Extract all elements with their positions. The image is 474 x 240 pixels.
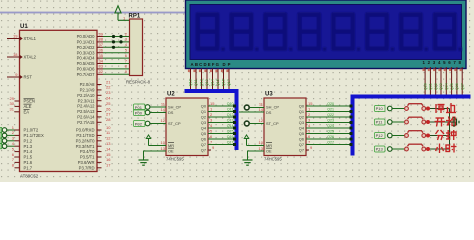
svg-text:Q11: Q11 bbox=[194, 79, 198, 86]
svg-text:P2.1/A9: P2.1/A9 bbox=[80, 88, 96, 93]
svg-text:P1.6: P1.6 bbox=[24, 160, 33, 165]
svg-text:P3.5/T1: P3.5/T1 bbox=[80, 155, 95, 160]
svg-text:22: 22 bbox=[106, 85, 111, 90]
svg-text:RST: RST bbox=[24, 75, 33, 80]
svg-text:Q0: Q0 bbox=[299, 104, 305, 109]
svg-text:Q3: Q3 bbox=[299, 120, 304, 125]
svg-text:Q26: Q26 bbox=[327, 135, 334, 139]
svg-text:P2.0/A8: P2.0/A8 bbox=[80, 82, 96, 87]
svg-text:37: 37 bbox=[99, 42, 104, 47]
svg-text:10: 10 bbox=[259, 140, 264, 145]
svg-text:ABCDEFG: ABCDEFG bbox=[191, 62, 220, 67]
svg-text:EA: EA bbox=[24, 109, 30, 114]
svg-text:P01: P01 bbox=[135, 105, 143, 110]
svg-text:27: 27 bbox=[106, 112, 111, 117]
svg-text:Q15: Q15 bbox=[227, 130, 234, 134]
svg-text:P1.5: P1.5 bbox=[24, 155, 33, 160]
svg-text:P1.7: P1.7 bbox=[24, 165, 33, 170]
svg-text:15: 15 bbox=[210, 101, 215, 106]
svg-text:19: 19 bbox=[13, 33, 18, 38]
svg-text:MR: MR bbox=[266, 143, 272, 148]
svg-text:P10: P10 bbox=[376, 106, 384, 111]
svg-text:39: 39 bbox=[99, 31, 104, 36]
svg-text:33: 33 bbox=[99, 64, 104, 69]
svg-text:Q10: Q10 bbox=[227, 102, 234, 106]
svg-text:U1: U1 bbox=[20, 24, 28, 30]
svg-text:38: 38 bbox=[99, 37, 104, 42]
svg-text:15: 15 bbox=[308, 101, 313, 106]
svg-text:Q23: Q23 bbox=[327, 119, 334, 123]
svg-text:Q4: Q4 bbox=[201, 126, 207, 131]
svg-text:12: 12 bbox=[259, 118, 264, 123]
svg-text:P3.1/TXD: P3.1/TXD bbox=[76, 133, 94, 138]
svg-text:P02: P02 bbox=[135, 121, 143, 126]
svg-text:35: 35 bbox=[99, 53, 104, 58]
svg-text:Q0: Q0 bbox=[201, 104, 207, 109]
svg-text:13: 13 bbox=[259, 146, 264, 151]
svg-text:P1.4: P1.4 bbox=[24, 149, 33, 154]
svg-text:OE: OE bbox=[168, 149, 174, 154]
svg-text:SH_CP: SH_CP bbox=[266, 105, 279, 110]
svg-text:P3.0/RXD: P3.0/RXD bbox=[76, 128, 95, 133]
svg-text:13: 13 bbox=[161, 146, 166, 151]
svg-text:15: 15 bbox=[106, 152, 111, 157]
svg-text:Q20: Q20 bbox=[423, 83, 427, 90]
svg-text:Q24: Q24 bbox=[327, 124, 334, 128]
svg-text:Q11: Q11 bbox=[227, 108, 234, 112]
svg-text:36: 36 bbox=[99, 48, 104, 53]
svg-text:32: 32 bbox=[99, 69, 104, 74]
svg-text:MR: MR bbox=[168, 143, 174, 148]
svg-text:Q1: Q1 bbox=[201, 109, 206, 114]
svg-text:P0.1/AD1: P0.1/AD1 bbox=[77, 40, 96, 45]
svg-text:Q5: Q5 bbox=[201, 131, 206, 136]
svg-text:XTAL1: XTAL1 bbox=[24, 36, 37, 41]
svg-text:Q13: Q13 bbox=[227, 119, 234, 123]
svg-text:Q7: Q7 bbox=[299, 142, 304, 147]
svg-text:28: 28 bbox=[106, 117, 111, 122]
svg-text:P3.3/INT1: P3.3/INT1 bbox=[76, 144, 96, 149]
svg-text:74HC595: 74HC595 bbox=[166, 157, 184, 162]
svg-text:P2.5/A13: P2.5/A13 bbox=[77, 109, 95, 114]
svg-text:Q2: Q2 bbox=[201, 115, 206, 120]
svg-text:ST_CP: ST_CP bbox=[266, 121, 279, 126]
svg-text:74HC595: 74HC595 bbox=[264, 157, 282, 162]
svg-text:RESPACK-8: RESPACK-8 bbox=[126, 80, 151, 85]
svg-text:RP1: RP1 bbox=[129, 14, 141, 20]
svg-text:24: 24 bbox=[106, 96, 111, 101]
svg-text:P00: P00 bbox=[135, 110, 143, 115]
svg-text:DS: DS bbox=[168, 110, 174, 115]
svg-text:P3.2/INT0: P3.2/INT0 bbox=[76, 138, 96, 143]
svg-text:Q27: Q27 bbox=[327, 141, 334, 145]
svg-text:SH_CP: SH_CP bbox=[168, 105, 181, 110]
svg-text:23: 23 bbox=[106, 90, 111, 95]
svg-text:29: 29 bbox=[10, 96, 15, 101]
svg-text:Q17: Q17 bbox=[227, 141, 234, 145]
svg-text:Q25: Q25 bbox=[327, 130, 334, 134]
svg-text:Q7: Q7 bbox=[299, 148, 304, 153]
svg-text:13: 13 bbox=[106, 141, 111, 146]
svg-text:Q10: Q10 bbox=[189, 79, 193, 86]
svg-text:Q15: Q15 bbox=[216, 79, 220, 86]
svg-text:P2.6/A14: P2.6/A14 bbox=[77, 115, 95, 120]
svg-text:P3.6/WR: P3.6/WR bbox=[78, 160, 95, 165]
svg-text:Q14: Q14 bbox=[211, 79, 215, 86]
svg-text:Q13: Q13 bbox=[205, 79, 209, 86]
svg-text:Q22: Q22 bbox=[327, 113, 334, 117]
svg-text:P0.7/AD7: P0.7/AD7 bbox=[77, 72, 96, 77]
svg-text:P2.3/A11: P2.3/A11 bbox=[78, 98, 96, 103]
svg-text:25: 25 bbox=[106, 101, 111, 106]
svg-text:P1.2: P1.2 bbox=[24, 138, 33, 143]
svg-text:12: 12 bbox=[106, 136, 111, 141]
svg-text:ALE: ALE bbox=[24, 104, 32, 109]
svg-text:10: 10 bbox=[106, 125, 111, 130]
svg-text:DS: DS bbox=[266, 110, 272, 115]
svg-text:P0.2/AD2: P0.2/AD2 bbox=[77, 45, 96, 50]
svg-text:P0.4/AD4: P0.4/AD4 bbox=[77, 56, 96, 61]
svg-text:P13: P13 bbox=[376, 147, 384, 152]
svg-text:Q12: Q12 bbox=[200, 79, 204, 86]
svg-text:Q22: Q22 bbox=[434, 83, 438, 90]
svg-text:Q17: Q17 bbox=[227, 79, 231, 86]
svg-text:14: 14 bbox=[106, 146, 111, 151]
svg-text:Q3: Q3 bbox=[201, 120, 206, 125]
svg-text:12: 12 bbox=[161, 118, 166, 123]
svg-text:P1.1/T2EX: P1.1/T2EX bbox=[24, 133, 44, 138]
svg-text:Q14: Q14 bbox=[227, 124, 234, 128]
svg-text:18: 18 bbox=[13, 52, 18, 57]
svg-text:Q12: Q12 bbox=[227, 113, 234, 117]
svg-text:Q16: Q16 bbox=[222, 79, 226, 86]
svg-text:P12: P12 bbox=[376, 133, 384, 138]
svg-text:Q6: Q6 bbox=[201, 137, 206, 142]
svg-text:Q7: Q7 bbox=[201, 142, 206, 147]
svg-text:Q5: Q5 bbox=[299, 131, 304, 136]
svg-text:21: 21 bbox=[106, 79, 111, 84]
svg-text:P3.7/RD: P3.7/RD bbox=[79, 165, 95, 170]
svg-text:30: 30 bbox=[10, 101, 15, 106]
svg-text:Q27: Q27 bbox=[460, 83, 464, 90]
svg-text:Q26: Q26 bbox=[455, 83, 459, 90]
svg-text:Q16: Q16 bbox=[227, 135, 234, 139]
svg-text:XTAL2: XTAL2 bbox=[24, 55, 37, 60]
svg-text:Q21: Q21 bbox=[327, 108, 334, 112]
svg-text:ST_CP: ST_CP bbox=[168, 121, 181, 126]
svg-text:Q6: Q6 bbox=[299, 137, 304, 142]
svg-text:Q4: Q4 bbox=[299, 126, 305, 131]
svg-text:Q24: Q24 bbox=[445, 83, 449, 90]
svg-text:26: 26 bbox=[106, 106, 111, 111]
svg-text:31: 31 bbox=[10, 107, 15, 112]
svg-text:34: 34 bbox=[99, 58, 104, 63]
svg-text:P2.7/A15: P2.7/A15 bbox=[77, 120, 95, 125]
svg-text:AT89C52: AT89C52 bbox=[20, 174, 39, 179]
svg-text:P11: P11 bbox=[376, 120, 384, 125]
svg-text:P1.3: P1.3 bbox=[24, 144, 33, 149]
svg-text:P2.4/A12: P2.4/A12 bbox=[77, 104, 95, 109]
svg-text:16: 16 bbox=[106, 157, 111, 162]
svg-text:P0.5/AD5: P0.5/AD5 bbox=[77, 61, 96, 66]
svg-text:Q2: Q2 bbox=[299, 115, 304, 120]
svg-text:Q25: Q25 bbox=[450, 83, 454, 90]
svg-text:Q1: Q1 bbox=[299, 109, 304, 114]
svg-text:P1.0/T2: P1.0/T2 bbox=[24, 128, 39, 133]
svg-text:P3.4/T0: P3.4/T0 bbox=[80, 149, 95, 154]
svg-text:PSEN: PSEN bbox=[24, 99, 35, 104]
svg-text:Q20: Q20 bbox=[327, 102, 334, 106]
svg-text:17: 17 bbox=[106, 163, 111, 168]
svg-text:P0.3/AD3: P0.3/AD3 bbox=[77, 50, 96, 55]
svg-text:U2: U2 bbox=[167, 92, 175, 98]
svg-text:Q23: Q23 bbox=[439, 83, 443, 90]
svg-text:P0.0/AD0: P0.0/AD0 bbox=[77, 34, 96, 39]
svg-text:14: 14 bbox=[161, 107, 166, 112]
svg-text:P0.6/AD6: P0.6/AD6 bbox=[77, 67, 96, 72]
svg-text:U3: U3 bbox=[265, 92, 273, 98]
svg-text:P2.2/A10: P2.2/A10 bbox=[77, 93, 95, 98]
svg-text:OE: OE bbox=[266, 149, 272, 154]
svg-text:10: 10 bbox=[161, 140, 166, 145]
svg-text:Q21: Q21 bbox=[429, 83, 433, 90]
svg-text:Q7: Q7 bbox=[201, 148, 206, 153]
